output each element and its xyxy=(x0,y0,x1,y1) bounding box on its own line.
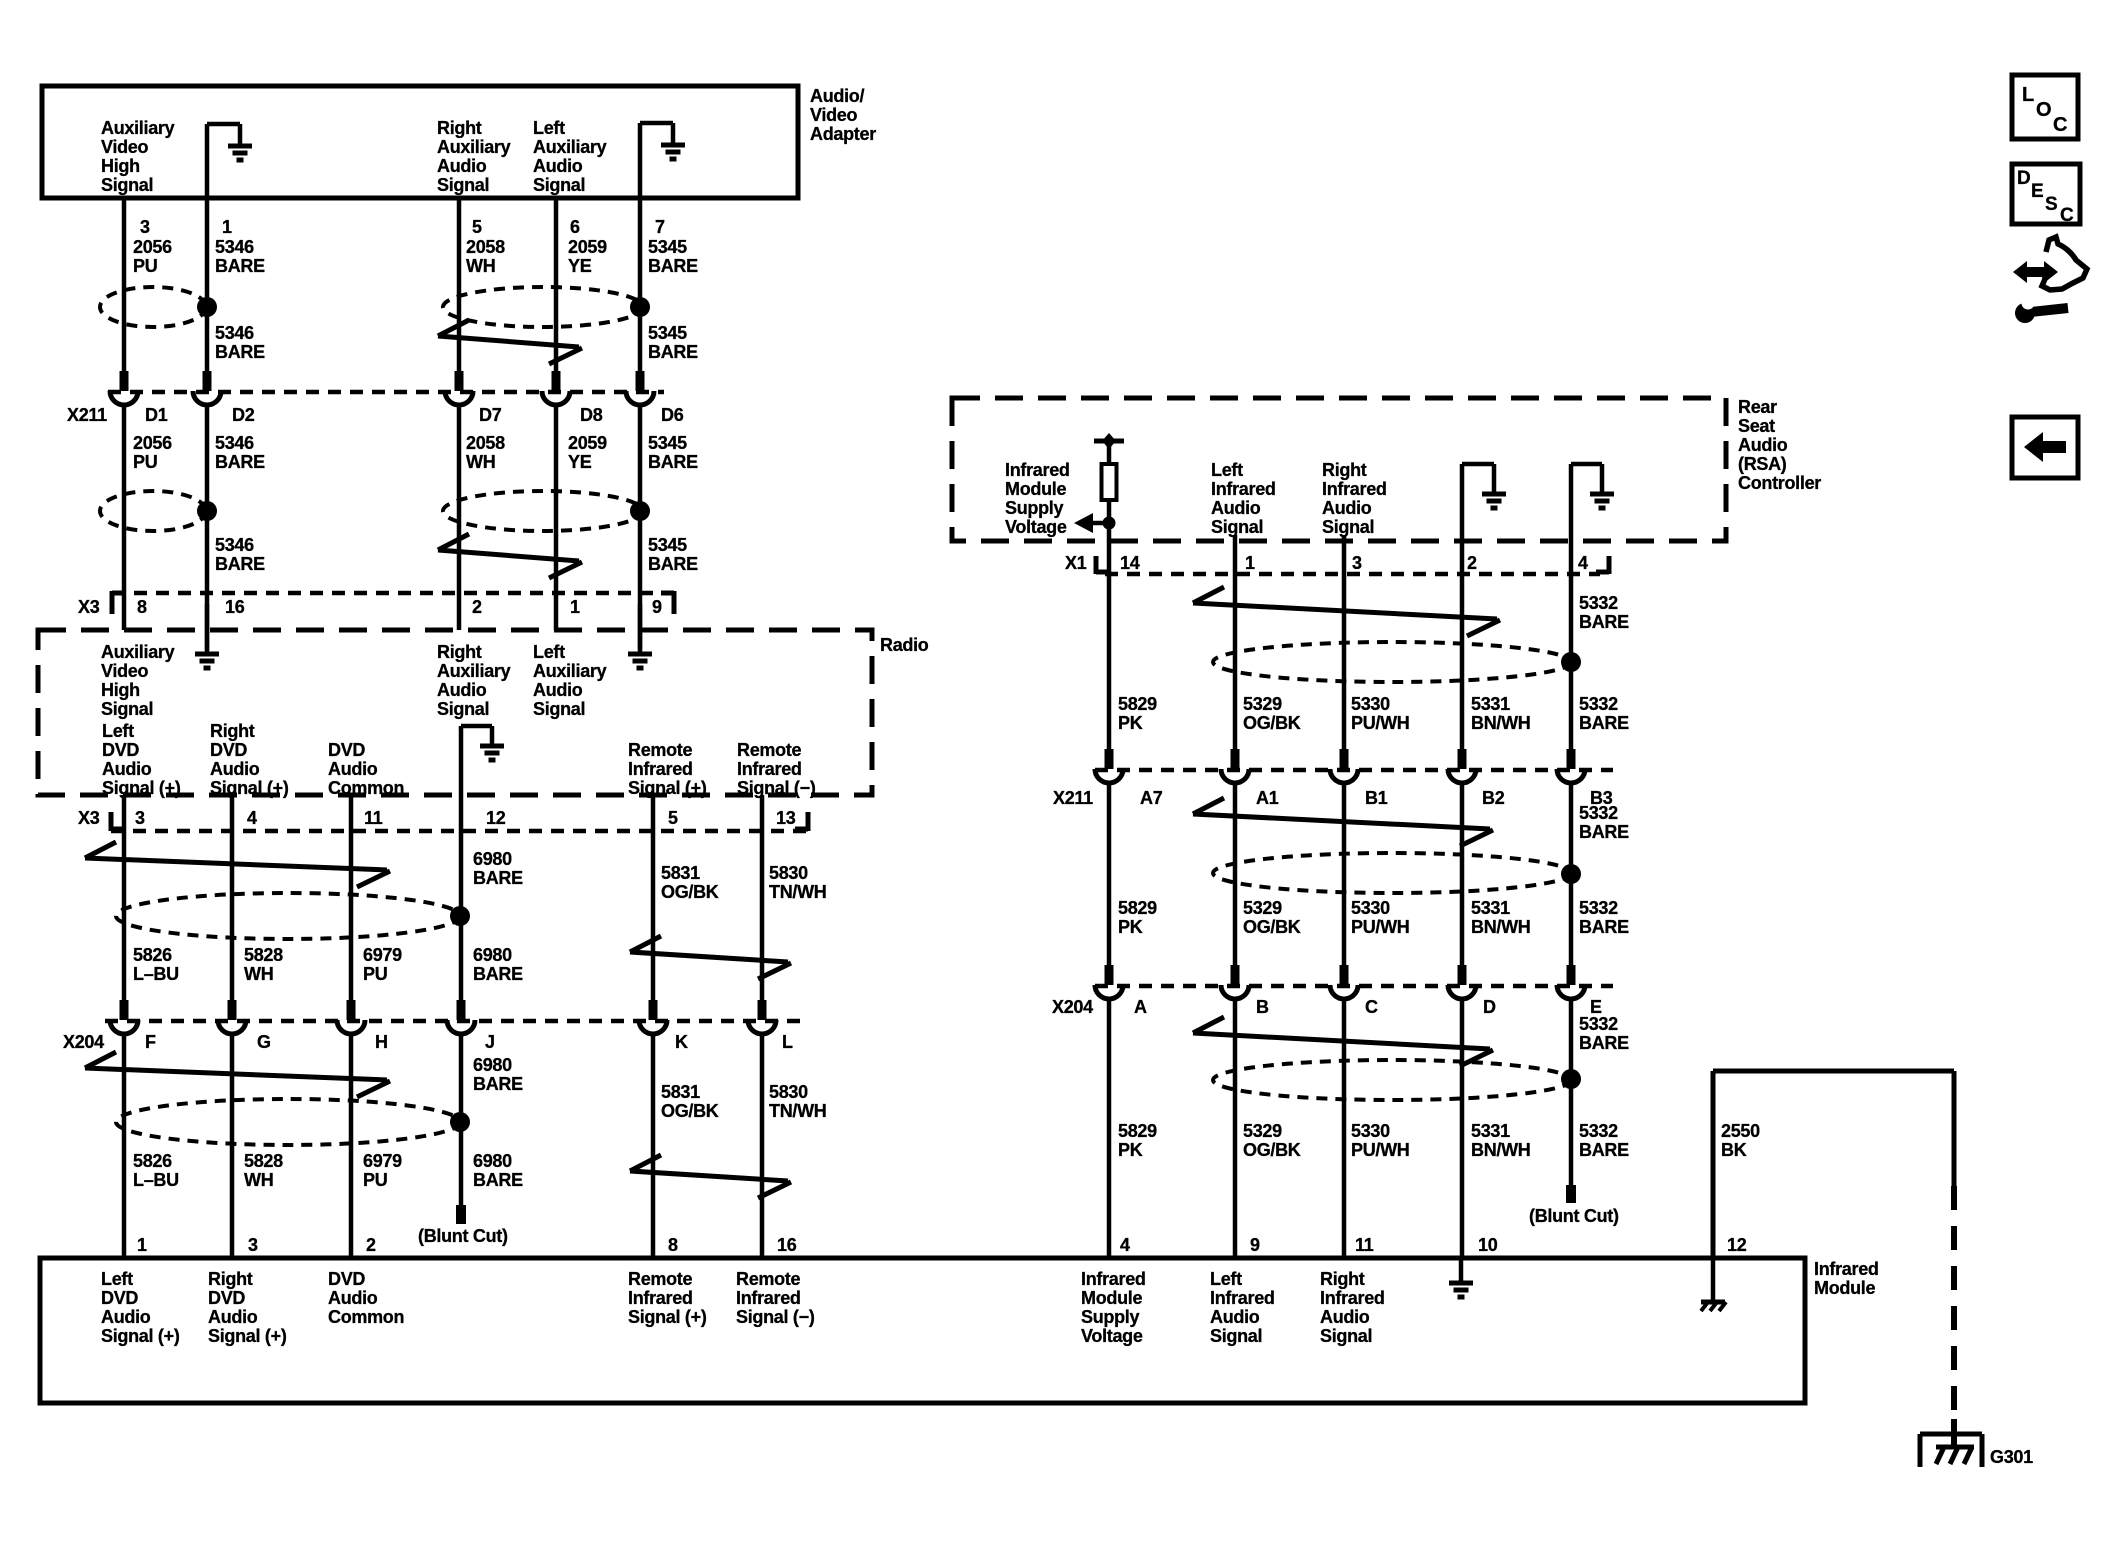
ground (RSA X1-4) xyxy=(1571,464,1614,541)
svg-text:5332: 5332 xyxy=(1579,694,1618,714)
svg-text:Video: Video xyxy=(810,105,857,125)
svg-text:Infrared: Infrared xyxy=(628,759,693,779)
svg-text:(Blunt Cut): (Blunt Cut) xyxy=(1529,1206,1619,1226)
svg-text:Audio: Audio xyxy=(533,156,583,176)
svg-text:Module: Module xyxy=(1814,1278,1875,1298)
icon back arrow box xyxy=(2012,417,2078,478)
svg-text:4: 4 xyxy=(247,808,257,828)
svg-text:5332: 5332 xyxy=(1579,1014,1618,1034)
svg-text:Auxiliary: Auxiliary xyxy=(437,137,511,157)
wire 5332 BARE (RSA to X211) xyxy=(1569,541,1574,751)
connector cup X204 left at 232 xyxy=(218,1020,246,1034)
svg-text:Infrared: Infrared xyxy=(1081,1269,1146,1289)
wire label 6980 BARE upper xyxy=(473,849,523,888)
svg-text:C: C xyxy=(2053,114,2067,136)
svg-text:2059: 2059 xyxy=(568,433,607,453)
svg-text:Remote: Remote xyxy=(737,740,802,760)
svg-text:2058: 2058 xyxy=(466,237,505,257)
svg-text:B1: B1 xyxy=(1365,788,1388,808)
label X3 row2 xyxy=(78,808,100,828)
svg-text:Seat: Seat xyxy=(1738,416,1775,436)
svg-text:Voltage: Voltage xyxy=(1081,1326,1143,1346)
svg-text:Signal (+): Signal (+) xyxy=(628,778,707,798)
svg-text:BARE: BARE xyxy=(1579,822,1629,842)
junction dot 5345 xyxy=(630,297,650,317)
svg-text:BARE: BARE xyxy=(648,452,698,472)
wire labels (RSA-X211) xyxy=(1118,694,1629,733)
wire 5828 WH (radio to X204) xyxy=(230,795,235,1001)
svg-text:BARE: BARE xyxy=(648,342,698,362)
label Left Infrared Audio Signal (RSA) xyxy=(1211,460,1276,537)
svg-text:16: 16 xyxy=(777,1235,797,1255)
X204 left pins F G H J K L xyxy=(145,1032,793,1052)
ground G301 xyxy=(1920,1434,1982,1467)
wire 2550 BK xyxy=(1713,1071,1954,1258)
svg-text:BARE: BARE xyxy=(1579,917,1629,937)
svg-text:5829: 5829 xyxy=(1118,898,1157,918)
label Right DVD Audio Signal (+) (module) xyxy=(208,1269,287,1346)
svg-text:5829: 5829 xyxy=(1118,694,1157,714)
svg-text:X204: X204 xyxy=(1052,997,1093,1017)
label Remote Infrared Signal (+) (radio) xyxy=(628,740,707,798)
label X204 left xyxy=(63,1032,104,1052)
shield ellipse (5826/5828/6979/6980) xyxy=(116,893,460,939)
svg-text:Audio: Audio xyxy=(328,1288,378,1308)
connector cup X204 left at 124 xyxy=(110,1020,138,1034)
wire labels (below X204 left) xyxy=(133,1151,523,1190)
svg-text:Signal: Signal xyxy=(101,699,153,719)
connector cup X211 right at 1571 xyxy=(1557,769,1585,783)
wire 6980 BARE (radio to X204) xyxy=(459,795,464,1001)
connector cup X211 left at 207 xyxy=(193,391,221,405)
connector cup X204 right at 1235 xyxy=(1221,985,1249,999)
wire 2059 YE (adapter to X211) xyxy=(554,198,559,372)
wire labels 5831/5830 upper xyxy=(661,863,826,902)
label Right Auxiliary Audio Signal (radio) xyxy=(437,642,511,719)
Audio/Video Adapter box xyxy=(42,86,798,198)
svg-text:O: O xyxy=(2036,99,2051,121)
twisted pair marker (K L) xyxy=(630,936,791,979)
label G301 xyxy=(1990,1447,2033,1467)
chassis ground (module pin 12) xyxy=(1701,1258,1726,1311)
svg-text:4: 4 xyxy=(1578,553,1588,573)
wire 2058 WH (X211 to X3) xyxy=(457,404,462,630)
svg-text:12: 12 xyxy=(1727,1235,1747,1255)
svg-text:2: 2 xyxy=(1467,553,1477,573)
twisted pair marker (F G H) xyxy=(85,842,390,887)
svg-text:Infrared: Infrared xyxy=(1814,1259,1879,1279)
svg-text:Signal: Signal xyxy=(1320,1326,1372,1346)
svg-text:Auxiliary: Auxiliary xyxy=(533,661,607,681)
svg-text:BARE: BARE xyxy=(473,964,523,984)
svg-text:Signal (+): Signal (+) xyxy=(210,778,289,798)
svg-text:Audio: Audio xyxy=(101,1307,151,1327)
svg-text:E: E xyxy=(2031,181,2043,202)
svg-text:3: 3 xyxy=(140,217,150,237)
svg-text:2: 2 xyxy=(472,597,482,617)
svg-text:B2: B2 xyxy=(1482,788,1505,808)
wire 5330 PU/WH (X211 to X204) xyxy=(1342,782,1347,967)
connector cup X211 right at 1235 xyxy=(1221,769,1249,783)
connector X204 (left) row xyxy=(105,1019,800,1024)
svg-text:WH: WH xyxy=(466,256,495,276)
svg-text:8: 8 xyxy=(137,597,147,617)
svg-text:4: 4 xyxy=(1120,1235,1130,1255)
svg-text:Left: Left xyxy=(533,118,565,138)
label Radio xyxy=(880,635,929,655)
twisted pair marker 2 (K L) xyxy=(630,1155,791,1198)
wire 5829 PK (X204 to module) xyxy=(1107,998,1112,1258)
connector X211 (right) row xyxy=(1095,768,1613,773)
wire 5332 BARE (X204 to module) xyxy=(1569,998,1574,1186)
svg-text:2056: 2056 xyxy=(133,433,172,453)
Radio box xyxy=(38,630,872,795)
shield ellipse (2056/5346) xyxy=(100,287,206,327)
svg-text:Audio: Audio xyxy=(1211,498,1261,518)
svg-text:PU: PU xyxy=(363,964,387,984)
wire 2056 PU (X211 to X3) xyxy=(122,404,127,630)
svg-text:Signal: Signal xyxy=(437,175,489,195)
wire 5329 OG/BK (X211 to X204) xyxy=(1233,782,1238,967)
svg-text:Right: Right xyxy=(437,642,482,662)
svg-text:X3: X3 xyxy=(78,808,100,828)
svg-text:1: 1 xyxy=(1245,553,1255,573)
svg-text:Infrared: Infrared xyxy=(1211,479,1276,499)
svg-text:BARE: BARE xyxy=(1579,1140,1629,1160)
svg-text:PK: PK xyxy=(1118,713,1143,733)
svg-text:Remote: Remote xyxy=(736,1269,801,1289)
wire 5831 OG/BK (radio to X204) xyxy=(651,795,656,1001)
connector cup X204 left at 762 xyxy=(748,1020,776,1034)
svg-text:5329: 5329 xyxy=(1243,898,1282,918)
junction dot 5345 b xyxy=(630,501,650,521)
wire 5829 PK (X211 to X204) xyxy=(1107,782,1112,967)
svg-text:H: H xyxy=(375,1032,388,1052)
wire 5826 L-BU (radio to X204) xyxy=(122,795,127,1001)
connector cup X211 right at 1109 xyxy=(1095,769,1123,783)
svg-text:2550: 2550 xyxy=(1721,1121,1760,1141)
svg-text:OG/BK: OG/BK xyxy=(661,1101,719,1121)
connector cup X211 left at 459 xyxy=(445,391,473,405)
X211 left pins D1 D2 D7 D8 D6 xyxy=(145,405,684,425)
svg-text:PU/WH: PU/WH xyxy=(1351,917,1410,937)
twisted pair marker (2058/2059) xyxy=(438,320,582,364)
svg-text:5346: 5346 xyxy=(215,323,254,343)
label Right Infrared Audio Signal (RSA) xyxy=(1322,460,1387,537)
wire labels (X211-X204 right) xyxy=(1118,898,1629,937)
label Right Auxiliary Audio Signal (adapter) xyxy=(437,118,511,195)
X1 pins 14 1 3 2 4 xyxy=(1120,553,1588,573)
svg-text:6980: 6980 xyxy=(473,1151,512,1171)
svg-text:Left: Left xyxy=(1210,1269,1242,1289)
svg-text:WH: WH xyxy=(244,964,273,984)
svg-text:Infrared: Infrared xyxy=(1320,1288,1385,1308)
twisted pair marker b (2058/2059) xyxy=(438,534,582,578)
label Infrared Module Supply Voltage (module) xyxy=(1081,1269,1146,1346)
svg-text:2: 2 xyxy=(366,1235,376,1255)
svg-text:Audio: Audio xyxy=(210,759,260,779)
wire 5346 BARE (adapter to X211) xyxy=(205,198,210,372)
ground (radio pin 16 wire) xyxy=(195,604,219,668)
svg-text:PU/WH: PU/WH xyxy=(1351,1140,1410,1160)
svg-text:L–BU: L–BU xyxy=(133,964,179,984)
svg-text:Controller: Controller xyxy=(1738,473,1821,493)
svg-text:Auxiliary: Auxiliary xyxy=(101,118,175,138)
svg-text:14: 14 xyxy=(1120,553,1140,573)
label Right Infrared Audio Signal (module) xyxy=(1320,1269,1385,1346)
pin labels adapter 3 1 5 6 7 xyxy=(140,217,665,237)
svg-text:Infrared: Infrared xyxy=(628,1288,693,1308)
svg-text:Signal (+): Signal (+) xyxy=(208,1326,287,1346)
label DVD Audio Common (module) xyxy=(328,1269,404,1327)
connector X1 row xyxy=(1105,572,1600,577)
svg-text:Signal: Signal xyxy=(437,699,489,719)
svg-text:BARE: BARE xyxy=(215,452,265,472)
svg-text:Signal: Signal xyxy=(101,175,153,195)
label Remote Infrared Signal (-) (radio) xyxy=(737,740,816,798)
svg-text:Audio: Audio xyxy=(533,680,583,700)
svg-text:6980: 6980 xyxy=(473,1055,512,1075)
twisted pair marker (X1) xyxy=(1193,587,1500,636)
ground (adapter pin 1) xyxy=(207,124,252,198)
svg-text:Infrared: Infrared xyxy=(736,1288,801,1308)
svg-text:5830: 5830 xyxy=(769,1082,808,1102)
label (Blunt Cut) right xyxy=(1529,1206,1619,1226)
junction dot 5332 xyxy=(1561,652,1581,672)
X211 right pins A7 A1 B1 B2 B3 xyxy=(1140,788,1613,808)
shield ellipse (right 1) xyxy=(1213,642,1571,682)
wire 5345 BARE (X211 to X3) xyxy=(638,404,643,650)
svg-text:DVD: DVD xyxy=(328,740,365,760)
X204 right pins A B C D E xyxy=(1134,997,1602,1017)
svg-text:BARE: BARE xyxy=(1579,612,1629,632)
twisted pair marker (X204 right) xyxy=(1193,1017,1493,1066)
svg-text:TN/WH: TN/WH xyxy=(769,1101,826,1121)
wire label 5332 BARE low xyxy=(1579,1014,1629,1053)
svg-text:Signal (−): Signal (−) xyxy=(736,1307,815,1327)
svg-text:Supply: Supply xyxy=(1005,498,1063,518)
bottom-left pin labels 1 3 2 8 16 xyxy=(137,1235,797,1255)
svg-text:5831: 5831 xyxy=(661,863,700,883)
svg-text:Signal (+): Signal (+) xyxy=(102,778,181,798)
wire 5828 WH (X204 to module) xyxy=(230,1033,235,1258)
connector cup X204 right at 1571 xyxy=(1557,985,1585,999)
svg-text:X211: X211 xyxy=(1053,788,1093,808)
svg-text:Audio: Audio xyxy=(1322,498,1372,518)
svg-text:(RSA): (RSA) xyxy=(1738,454,1787,474)
label Right DVD Audio Signal (+) (radio) xyxy=(210,721,289,798)
svg-text:2059: 2059 xyxy=(568,237,607,257)
junction dot 5332 c xyxy=(1561,1069,1581,1089)
wire label 5332 BARE top xyxy=(1579,593,1629,632)
twisted pair marker 2 (F G H) xyxy=(85,1052,390,1097)
svg-text:BARE: BARE xyxy=(215,342,265,362)
shield ellipse 2 (2056/5346) xyxy=(100,491,206,531)
wire 6979 PU (radio to X204) xyxy=(349,795,354,1001)
svg-text:5331: 5331 xyxy=(1471,898,1510,918)
svg-text:(Blunt Cut): (Blunt Cut) xyxy=(418,1226,508,1246)
Infrared Module box xyxy=(40,1258,1805,1403)
svg-text:Rear: Rear xyxy=(1738,397,1777,417)
ground (adapter pin 7) xyxy=(640,123,685,198)
svg-text:TN/WH: TN/WH xyxy=(769,882,826,902)
junction dot 6980 b xyxy=(450,1112,470,1132)
wire labels (adapter-X211 lower) xyxy=(215,323,698,362)
label X211 left xyxy=(67,405,107,425)
svg-text:5346: 5346 xyxy=(215,433,254,453)
wire labels (X211-X3 upper) xyxy=(133,433,698,472)
label Left DVD Audio Signal (+) (module) xyxy=(101,1269,180,1346)
svg-text:6: 6 xyxy=(570,217,580,237)
svg-text:1: 1 xyxy=(222,217,232,237)
svg-text:Remote: Remote xyxy=(628,1269,693,1289)
shield ellipse 2 (2058/2059/5345) xyxy=(443,491,643,531)
svg-text:BARE: BARE xyxy=(1579,713,1629,733)
label Infrared Module xyxy=(1814,1259,1879,1298)
icon vehicle/wrench xyxy=(2013,237,2087,323)
svg-text:Signal: Signal xyxy=(1211,517,1263,537)
label Infrared Module Supply Voltage (RSA) xyxy=(1005,460,1070,537)
svg-text:5329: 5329 xyxy=(1243,694,1282,714)
svg-text:Audio: Audio xyxy=(437,680,487,700)
wire label 5332 BARE mid xyxy=(1579,803,1629,842)
connector X204 (right) row xyxy=(1095,984,1613,989)
svg-text:Module: Module xyxy=(1081,1288,1142,1308)
svg-text:WH: WH xyxy=(466,452,495,472)
shield ellipse (right 3) xyxy=(1213,1060,1571,1100)
dashed wire to G301 xyxy=(1951,1186,1957,1410)
wire labels (X211-X3 lower) xyxy=(215,535,698,574)
junction dot 5346 b xyxy=(197,501,217,521)
svg-text:13: 13 xyxy=(776,808,796,828)
wire 5830 TN/WH (X204 to module) xyxy=(760,1033,765,1258)
svg-text:BARE: BARE xyxy=(473,1170,523,1190)
blunt cut end 5332 xyxy=(1566,1185,1576,1203)
svg-text:BARE: BARE xyxy=(215,554,265,574)
svg-text:8: 8 xyxy=(668,1235,678,1255)
svg-text:Signal: Signal xyxy=(533,699,585,719)
svg-text:7: 7 xyxy=(655,217,665,237)
svg-text:OG/BK: OG/BK xyxy=(1243,917,1301,937)
svg-text:Signal: Signal xyxy=(1210,1326,1262,1346)
shield ellipse 2 (5826/5828/6979/6980) xyxy=(116,1099,460,1145)
svg-text:BARE: BARE xyxy=(473,1074,523,1094)
svg-text:Right: Right xyxy=(208,1269,253,1289)
wire 5330 PU/WH (RSA to X211) xyxy=(1342,535,1347,751)
svg-text:5830: 5830 xyxy=(769,863,808,883)
svg-text:BARE: BARE xyxy=(648,256,698,276)
svg-text:2056: 2056 xyxy=(133,237,172,257)
blunt cut end 6980 xyxy=(456,1205,466,1224)
svg-text:YE: YE xyxy=(568,452,592,472)
svg-text:DVD: DVD xyxy=(102,740,139,760)
svg-text:5: 5 xyxy=(472,217,482,237)
svg-text:5330: 5330 xyxy=(1351,694,1390,714)
svg-text:Audio/: Audio/ xyxy=(810,86,864,106)
wire 5345 BARE (adapter to X211) xyxy=(638,198,643,372)
connector cup X204 left at 653 xyxy=(639,1020,667,1034)
svg-text:DVD: DVD xyxy=(210,740,247,760)
svg-text:Audio: Audio xyxy=(328,759,378,779)
wire labels 5831/5830 lower xyxy=(661,1082,826,1121)
svg-text:F: F xyxy=(145,1032,156,1052)
connector cup X204 left at 351 xyxy=(337,1020,365,1034)
svg-text:Audio: Audio xyxy=(1738,435,1788,455)
svg-text:X3: X3 xyxy=(78,597,100,617)
connector X3 row 2 xyxy=(111,829,808,834)
svg-text:5329: 5329 xyxy=(1243,1121,1282,1141)
svg-text:K: K xyxy=(675,1032,688,1052)
label Remote Infrared Signal (-) (module) xyxy=(736,1269,815,1327)
svg-text:Infrared: Infrared xyxy=(1005,460,1070,480)
svg-text:L: L xyxy=(2022,84,2034,106)
svg-text:9: 9 xyxy=(1250,1235,1260,1255)
svg-text:5346: 5346 xyxy=(215,535,254,555)
svg-text:DVD: DVD xyxy=(208,1288,245,1308)
label RSA Controller xyxy=(1738,397,1821,493)
svg-text:3: 3 xyxy=(1352,553,1362,573)
X1 left bracket xyxy=(1096,556,1109,574)
label X204 right xyxy=(1052,997,1093,1017)
svg-text:5345: 5345 xyxy=(648,433,687,453)
connector cup X204 right at 1344 xyxy=(1330,985,1358,999)
svg-text:Left: Left xyxy=(533,642,565,662)
svg-text:1: 1 xyxy=(137,1235,147,1255)
svg-text:D7: D7 xyxy=(479,405,502,425)
svg-text:5828: 5828 xyxy=(244,945,283,965)
connector cup X211 right at 1462 xyxy=(1448,769,1476,783)
label X3 row1 xyxy=(78,597,100,617)
wire 5329 OG/BK (X204 to module) xyxy=(1233,998,1238,1258)
ground (radio pin 9 wire) xyxy=(628,604,652,668)
wire 5826 L-BU (X204 to module) xyxy=(122,1033,127,1258)
svg-text:Audio: Audio xyxy=(437,156,487,176)
svg-text:PU: PU xyxy=(133,256,157,276)
connector cup X204 right at 1109 xyxy=(1095,985,1123,999)
svg-text:BK: BK xyxy=(1721,1140,1747,1160)
svg-text:G: G xyxy=(257,1032,271,1052)
svg-text:3: 3 xyxy=(135,808,145,828)
svg-text:Video: Video xyxy=(101,137,148,157)
svg-text:12: 12 xyxy=(486,808,506,828)
svg-text:X211: X211 xyxy=(67,405,107,425)
svg-text:C: C xyxy=(1365,997,1378,1017)
svg-text:Audio: Audio xyxy=(1210,1307,1260,1327)
svg-text:Signal (−): Signal (−) xyxy=(737,778,816,798)
Rear Seat Audio (RSA) Controller box xyxy=(952,398,1726,541)
X3 row2 left bracket xyxy=(111,812,124,831)
supply voltage arrow xyxy=(1074,513,1116,533)
svg-text:5330: 5330 xyxy=(1351,1121,1390,1141)
label (Blunt Cut) left xyxy=(418,1226,508,1246)
wire 5331 BN/WH (X211 to X204) xyxy=(1460,782,1465,967)
wire 5329 OG/BK (RSA to X211) xyxy=(1233,535,1238,751)
svg-text:Supply: Supply xyxy=(1081,1307,1139,1327)
X3 row2 right bracket xyxy=(795,812,808,831)
svg-text:D1: D1 xyxy=(145,405,168,425)
svg-text:Auxiliary: Auxiliary xyxy=(101,642,175,662)
svg-text:D2: D2 xyxy=(232,405,255,425)
wire 6979 PU (X204 to module) xyxy=(349,1033,354,1258)
wire 5331 BN/WH (RSA to X211) xyxy=(1460,541,1465,751)
svg-text:5331: 5331 xyxy=(1471,694,1510,714)
svg-text:5332: 5332 xyxy=(1579,803,1618,823)
svg-text:Adapter: Adapter xyxy=(810,124,876,144)
svg-text:X1: X1 xyxy=(1065,553,1087,573)
svg-text:G301: G301 xyxy=(1990,1447,2033,1467)
svg-text:5345: 5345 xyxy=(648,323,687,343)
svg-text:D: D xyxy=(2017,168,2030,189)
